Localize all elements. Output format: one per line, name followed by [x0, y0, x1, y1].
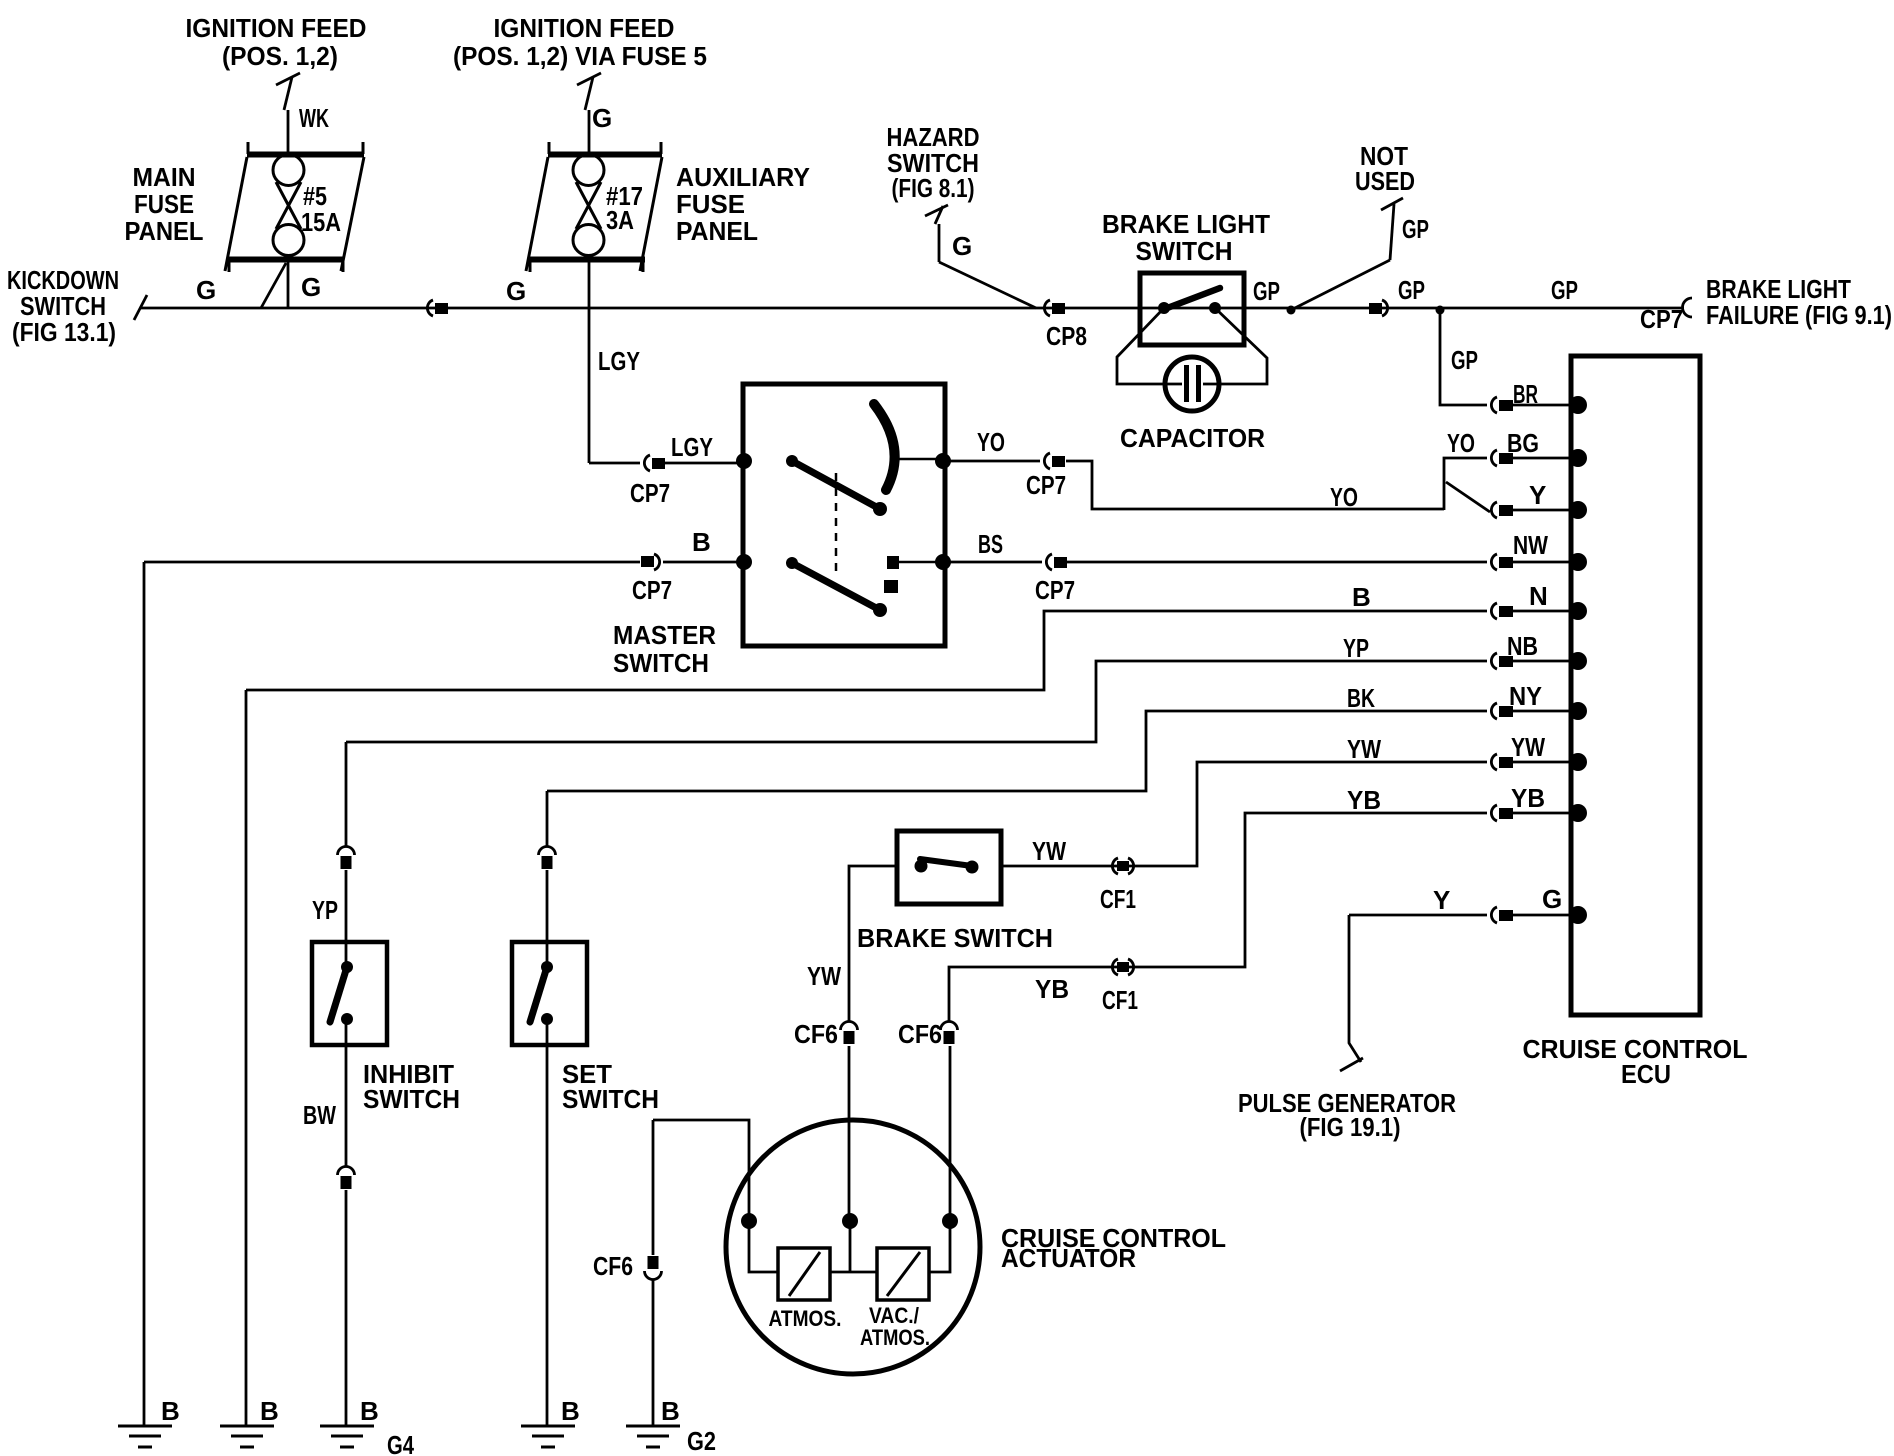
svg-text:CF1: CF1	[1100, 884, 1136, 914]
svg-text:(POS. 1,2): (POS. 1,2)	[222, 41, 338, 71]
svg-text:(FIG 19.1): (FIG 19.1)	[1300, 1112, 1401, 1142]
svg-text:PANEL: PANEL	[676, 216, 758, 246]
svg-text:(FIG 8.1): (FIG 8.1)	[892, 173, 975, 203]
svg-text:(POS. 1,2) VIA FUSE 5: (POS. 1,2) VIA FUSE 5	[453, 41, 707, 71]
svg-text:USED: USED	[1355, 166, 1415, 196]
svg-text:LGY: LGY	[598, 346, 640, 376]
svg-text:ATMOS.: ATMOS.	[860, 1325, 930, 1350]
svg-text:YB: YB	[1511, 783, 1545, 813]
svg-text:BRAKE SWITCH: BRAKE SWITCH	[857, 923, 1053, 953]
svg-text:BW: BW	[303, 1100, 336, 1130]
svg-text:SWITCH: SWITCH	[363, 1084, 460, 1114]
svg-text:G: G	[196, 275, 216, 305]
svg-text:ACTUATOR: ACTUATOR	[1001, 1243, 1136, 1273]
svg-text:YO: YO	[977, 427, 1005, 457]
svg-text:YW: YW	[1347, 734, 1381, 764]
svg-text:MASTER: MASTER	[613, 620, 716, 650]
svg-text:CP7: CP7	[1640, 304, 1683, 334]
svg-text:FAILURE (FIG 9.1): FAILURE (FIG 9.1)	[1706, 300, 1892, 330]
svg-text:GP: GP	[1398, 275, 1425, 305]
svg-text:FUSE: FUSE	[676, 189, 745, 219]
svg-text:ECU: ECU	[1621, 1059, 1671, 1089]
svg-text:Y: Y	[1433, 885, 1450, 915]
svg-text:GP: GP	[1253, 276, 1280, 306]
svg-text:NW: NW	[1513, 530, 1548, 560]
svg-text:YW: YW	[1511, 732, 1545, 762]
svg-text:Y: Y	[1529, 480, 1546, 510]
svg-text:CF1: CF1	[1102, 985, 1138, 1015]
svg-text:3A: 3A	[606, 205, 634, 235]
svg-text:PANEL: PANEL	[125, 216, 204, 246]
svg-text:BR: BR	[1513, 379, 1538, 409]
svg-text:WK: WK	[299, 103, 329, 133]
svg-text:YB: YB	[1347, 785, 1381, 815]
svg-text:ATMOS.: ATMOS.	[769, 1306, 842, 1331]
svg-text:FUSE: FUSE	[134, 189, 194, 219]
svg-text:CP8: CP8	[1046, 321, 1087, 351]
svg-text:YP: YP	[312, 895, 338, 925]
svg-text:SWITCH: SWITCH	[613, 648, 709, 678]
svg-text:G4: G4	[387, 1430, 414, 1456]
svg-text:CF6: CF6	[898, 1019, 942, 1049]
svg-text:YB: YB	[1035, 974, 1069, 1004]
svg-text:AUXILIARY: AUXILIARY	[676, 162, 810, 192]
svg-text:CP7: CP7	[1035, 575, 1075, 605]
svg-text:BG: BG	[1507, 428, 1539, 458]
svg-text:G: G	[952, 231, 972, 261]
svg-text:B: B	[692, 527, 711, 557]
svg-text:B: B	[661, 1396, 680, 1426]
svg-text:MAIN: MAIN	[133, 162, 196, 192]
svg-text:SWITCH: SWITCH	[1136, 236, 1233, 266]
svg-text:CF6: CF6	[593, 1251, 633, 1281]
svg-text:B: B	[260, 1396, 279, 1426]
svg-text:YO: YO	[1447, 428, 1475, 458]
svg-text:B: B	[360, 1396, 379, 1426]
svg-text:G2: G2	[687, 1426, 716, 1456]
svg-text:B: B	[561, 1396, 580, 1426]
svg-text:CAPACITOR: CAPACITOR	[1120, 423, 1265, 453]
svg-text:YO: YO	[1330, 482, 1358, 512]
svg-text:CF6: CF6	[794, 1019, 838, 1049]
svg-text:15A: 15A	[301, 207, 341, 237]
svg-text:(FIG 13.1): (FIG 13.1)	[12, 317, 116, 347]
svg-text:YW: YW	[807, 961, 841, 991]
svg-text:BRAKE LIGHT: BRAKE LIGHT	[1102, 209, 1270, 239]
svg-text:G: G	[301, 272, 321, 302]
svg-text:NB: NB	[1507, 631, 1538, 661]
svg-text:SWITCH: SWITCH	[562, 1084, 659, 1114]
svg-text:YW: YW	[1032, 836, 1066, 866]
svg-text:IGNITION FEED: IGNITION FEED	[186, 13, 367, 43]
svg-text:CP7: CP7	[632, 575, 672, 605]
svg-text:GP: GP	[1551, 275, 1578, 305]
svg-text:CP7: CP7	[630, 478, 670, 508]
svg-text:B: B	[1352, 582, 1371, 612]
svg-text:G: G	[592, 103, 612, 133]
svg-text:GP: GP	[1402, 214, 1429, 244]
svg-text:GP: GP	[1451, 345, 1478, 375]
svg-text:B: B	[161, 1396, 180, 1426]
svg-text:YP: YP	[1343, 633, 1369, 663]
svg-text:BK: BK	[1347, 683, 1375, 713]
svg-text:N: N	[1529, 581, 1548, 611]
svg-text:BS: BS	[978, 529, 1003, 559]
svg-text:IGNITION FEED: IGNITION FEED	[494, 13, 675, 43]
svg-text:G: G	[506, 276, 526, 306]
svg-text:CP7: CP7	[1026, 470, 1066, 500]
svg-text:NY: NY	[1509, 681, 1542, 711]
svg-text:LGY: LGY	[671, 432, 713, 462]
svg-text:G: G	[1542, 884, 1562, 914]
